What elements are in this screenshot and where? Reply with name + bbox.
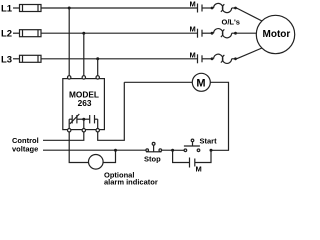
node junction L1-riser [68,7,71,10]
node junction hold-left [171,149,174,152]
wire L3 lead [13,58,20,60]
svg-text:Motor: Motor [263,29,291,40]
svg-text:Start: Start [200,136,218,145]
wire alarm branch left [69,132,88,163]
fuse F1 [20,5,42,12]
wire L3 to motor [237,48,263,59]
pushbutton Stop [144,142,162,163]
svg-text:M: M [196,165,202,174]
contact M3 (L3 phase) [190,50,214,63]
wire L2 to contact [41,32,198,34]
wire control upper [43,132,84,140]
node junction alarm-control [114,149,117,152]
wire box to coil riser [98,82,125,140]
wire L2 lead [13,32,20,34]
terminal T1 bottom [68,129,71,132]
wire L1 to motor [237,8,263,21]
box MODEL 263 [63,79,105,130]
terminal T2 bottom [82,129,85,132]
overload OL1 [212,3,237,12]
wire riser L2 to box [83,33,85,77]
label Optional alarm indicator [104,171,158,187]
label O/L's [222,18,240,27]
contact M1 (L1 phase) [190,0,214,13]
node L2 label [1,29,12,40]
svg-text:M: M [190,0,196,9]
overload OL2 [212,29,237,38]
svg-text:alarm indicator: alarm indicator [104,178,158,186]
wire riser L1 to box [68,8,70,77]
coil M [192,73,210,91]
svg-text:L1: L1 [1,4,13,15]
wire alarm branch right [103,150,115,162]
svg-text:M: M [196,77,205,89]
svg-text:L3: L3 [1,54,12,65]
terminal T3 top [96,76,99,79]
terminal T1 top [68,76,71,79]
svg-text:voltage: voltage [12,145,38,154]
wire L1 lead [13,7,20,9]
svg-text:M: M [190,50,196,59]
svg-text:L2: L2 [1,29,12,40]
overload OL3 [212,54,237,63]
terminal T3 bottom [96,129,99,132]
relay contact inside box [69,114,98,129]
motor M [256,15,294,53]
wire L1 to contact [41,7,198,9]
svg-text:Stop: Stop [144,154,161,163]
node L1 label [1,4,13,15]
label Control voltage [12,136,39,154]
svg-text:263: 263 [78,98,92,108]
svg-text:M: M [190,25,196,34]
wire L2 to motor [236,32,257,34]
contact M holding [173,150,211,173]
wire stop to start [162,149,185,151]
node junction L3-riser [96,57,99,60]
wire riser L3 to box [97,59,99,78]
node junction L2-riser [82,32,85,35]
lamp alarm indicator [89,155,104,170]
wire coil right [210,82,228,150]
pushbutton Start [184,136,217,151]
node L3 label [1,54,12,65]
wire control lower [43,149,146,151]
wire coil left [124,81,192,83]
fuse F2 [20,30,42,37]
contact M2 (L2 phase) [190,25,214,38]
svg-text:O/L's: O/L's [222,18,240,27]
terminal T2 top [82,76,85,79]
fuse F3 [20,55,42,62]
node junction hold-right [210,149,213,152]
wire L3 to contact [41,58,198,60]
